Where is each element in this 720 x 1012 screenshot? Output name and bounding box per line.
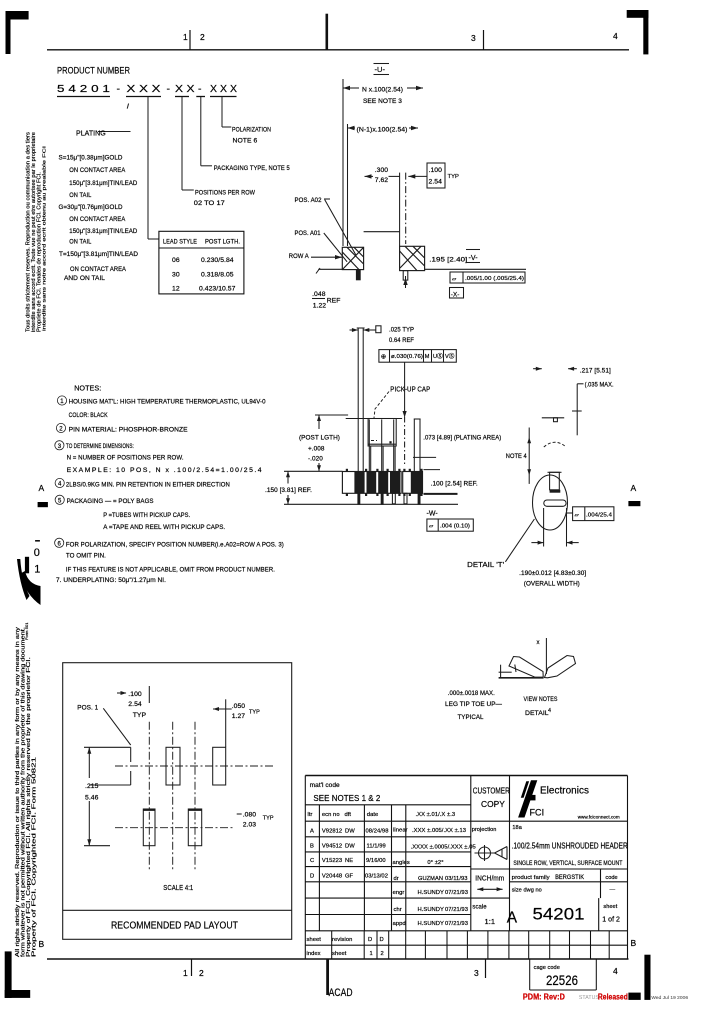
svg-text:scale: scale (472, 905, 487, 911)
svg-text:POLARIZATION: POLARIZATION (232, 127, 271, 134)
svg-text:SEE NOTE 3: SEE NOTE 3 (363, 98, 402, 105)
svg-text:G=30μ"[0.76μm]GOLD: G=30μ"[0.76μm]GOLD (59, 204, 123, 211)
svg-text:Wed Jul 19 2006: Wed Jul 19 2006 (651, 995, 688, 1001)
svg-text:150μ"[3.81μm]TIN/LEAD: 150μ"[3.81μm]TIN/LEAD (69, 228, 137, 235)
svg-text:mat'l code: mat'l code (310, 782, 340, 789)
svg-text:.025 TYP: .025 TYP (389, 327, 414, 334)
svg-text:N x.100(2.54): N x.100(2.54) (362, 87, 403, 94)
svg-text:POS. A02: POS. A02 (295, 197, 322, 204)
svg-text:x: x (537, 640, 540, 646)
svg-text:ON TAIL: ON TAIL (69, 239, 91, 246)
svg-text:⊕: ⊕ (381, 354, 387, 361)
svg-text:SINGLE ROW, VERTICAL, SURFACE: SINGLE ROW, VERTICAL, SURFACE MOUNT (513, 860, 622, 867)
svg-text:12: 12 (172, 286, 180, 293)
svg-text:4: 4 (613, 966, 618, 976)
svg-text:.050: .050 (232, 703, 246, 710)
svg-text:P =TUBES WITH PICKUP CAPS.: P =TUBES WITH PICKUP CAPS. (103, 512, 190, 519)
svg-text:07/21/93: 07/21/93 (445, 921, 468, 927)
svg-text:0.423/10.57: 0.423/10.57 (199, 286, 236, 293)
svg-text:PDM: Rev:D: PDM: Rev:D (523, 993, 565, 1002)
svg-text:30: 30 (172, 272, 180, 279)
svg-text:A: A (310, 829, 314, 835)
svg-text:3: 3 (471, 33, 476, 43)
svg-text:PACKAGING TYPE, NOTE 5: PACKAGING TYPE, NOTE 5 (214, 165, 290, 172)
svg-text:REF: REF (327, 298, 341, 305)
svg-text:revision: revision (332, 937, 352, 943)
svg-text:NOTES:: NOTES: (74, 384, 101, 393)
svg-text:PRODUCT NUMBER: PRODUCT NUMBER (57, 66, 130, 77)
svg-text:EXAMPLE: 10 POS, N x .100/2.54: EXAMPLE: 10 POS, N x .100/2.54=1.00/25.4 (67, 467, 262, 474)
svg-text:POS. 1: POS. 1 (77, 705, 98, 712)
svg-text:-U-: -U- (375, 65, 386, 74)
svg-text:2: 2 (59, 427, 63, 433)
svg-text:sheet: sheet (332, 951, 347, 957)
svg-text:(.035 MAX.: (.035 MAX. (585, 383, 614, 389)
svg-text:www.fciconnect.com: www.fciconnect.com (578, 815, 620, 820)
svg-text:-X-: -X- (451, 292, 460, 299)
svg-text:COLOR: BLACK: COLOR: BLACK (69, 412, 108, 419)
svg-text:A: A (39, 483, 45, 493)
svg-text:.217 [5.51]: .217 [5.51] (580, 368, 611, 375)
svg-text:▱: ▱ (429, 524, 434, 530)
svg-text:B: B (310, 844, 314, 850)
svg-text:0.64 REF: 0.64 REF (389, 337, 414, 344)
svg-text:.004/25.4: .004/25.4 (586, 513, 612, 519)
svg-text:M: M (425, 354, 430, 360)
svg-text:A: A (631, 483, 637, 493)
svg-text:.000±.0018 MAX.: .000±.0018 MAX. (448, 690, 495, 697)
svg-text:.100: .100 (128, 691, 142, 698)
svg-text:C: C (310, 858, 314, 864)
svg-text:.100 [2.54] REF.: .100 [2.54] REF. (431, 480, 478, 487)
svg-text:.XX ±.01/.X ±.3: .XX ±.01/.X ±.3 (416, 812, 456, 818)
svg-text:22526: 22526 (546, 973, 578, 988)
svg-text:1 of 2: 1 of 2 (602, 916, 620, 923)
svg-text:.100: .100 (429, 167, 443, 174)
svg-text:-: - (198, 83, 202, 95)
svg-text:DW: DW (345, 829, 355, 835)
svg-text:Released: Released (598, 993, 628, 1002)
svg-text:02 TO 17: 02 TO 17 (194, 200, 225, 207)
svg-text:FCI: FCI (530, 808, 545, 818)
svg-text:POS. A01: POS. A01 (295, 230, 321, 237)
svg-text:-: - (117, 83, 121, 95)
svg-text:NOTE 4: NOTE 4 (506, 453, 527, 460)
svg-text:2: 2 (200, 32, 205, 42)
svg-text:B: B (631, 938, 637, 948)
svg-text:.300: .300 (375, 167, 389, 174)
svg-text:LEG TIP TOE UP—: LEG TIP TOE UP— (445, 701, 503, 708)
svg-text:▱: ▱ (575, 513, 580, 519)
svg-text:HOUSING MAT'L: HIGH TEMPERATUR: HOUSING MAT'L: HIGH TEMPERATURE THERMOPL… (69, 399, 266, 406)
svg-text:D: D (368, 937, 372, 943)
svg-text:7.62: 7.62 (375, 177, 389, 184)
svg-text:PICK-UP CAP: PICK-UP CAP (390, 386, 430, 393)
svg-text:5 4 2 0 1: 5 4 2 0 1 (57, 83, 110, 95)
svg-text:BERGSTIK: BERGSTIK (555, 874, 585, 881)
svg-text:ON CONTACT AREA: ON CONTACT AREA (69, 167, 125, 174)
svg-text:engr: engr (393, 890, 405, 896)
svg-text:06: 06 (172, 257, 180, 264)
svg-text:DW: DW (345, 844, 355, 850)
svg-text:-: - (167, 83, 171, 95)
svg-text:2.54: 2.54 (429, 179, 443, 186)
svg-text:TYPICAL: TYPICAL (458, 714, 484, 721)
svg-text:POST LGTH.: POST LGTH. (205, 239, 240, 246)
svg-text:3: 3 (58, 444, 62, 450)
svg-text:ACAD: ACAD (329, 987, 353, 999)
svg-text:LEAD STYLE: LEAD STYLE (163, 239, 197, 246)
svg-text:ø.030(0.76): ø.030(0.76) (391, 354, 423, 360)
svg-text:TO OMIT PIN.: TO OMIT PIN. (66, 553, 106, 560)
svg-text:V20448: V20448 (322, 874, 342, 880)
svg-text:ecn no: ecn no (322, 812, 340, 818)
svg-text:GF: GF (345, 874, 354, 880)
svg-text:0° ±2°: 0° ±2° (427, 860, 443, 866)
svg-text:T=150μ"[3.81μm]TIN/LEAD: T=150μ"[3.81μm]TIN/LEAD (59, 251, 138, 258)
svg-text:linear: linear (393, 828, 407, 834)
svg-text:5: 5 (58, 498, 62, 504)
svg-text:Property of FCI. Copyrighted: Property of FCI. Copyrighted FCI. Form 5… (32, 757, 38, 957)
svg-text:AND ON TAIL: AND ON TAIL (64, 275, 105, 282)
svg-text:1:1: 1:1 (485, 917, 496, 926)
svg-text:(POST LGTH): (POST LGTH) (299, 435, 340, 442)
svg-text:COPY: COPY (481, 799, 505, 809)
svg-text:03/11/93: 03/11/93 (445, 876, 468, 882)
svg-text:H.SUNDY: H.SUNDY (418, 921, 445, 927)
svg-text:H.SUNDY: H.SUNDY (418, 890, 445, 896)
svg-text:.XXX ±.005/.XX ±.13: .XXX ±.005/.XX ±.13 (412, 828, 466, 834)
svg-text:07/21/93: 07/21/93 (445, 890, 468, 896)
svg-text:.080: .080 (243, 812, 257, 819)
svg-text:.XXXX ±.0005/.XXX ±.05: .XXXX ±.0005/.XXX ±.05 (411, 845, 476, 851)
svg-text:INCH/mm: INCH/mm (475, 876, 504, 883)
svg-text:TYP: TYP (448, 174, 460, 180)
svg-text:—: — (610, 887, 616, 893)
svg-text:ltr: ltr (308, 812, 313, 818)
svg-text:(N-1)x.100(2.54): (N-1)x.100(2.54) (357, 127, 408, 134)
svg-text:(OVERALL WIDTH): (OVERALL WIDTH) (524, 581, 580, 588)
svg-text:7. UNDERPLATING: 50μ"/1.27μm N: 7. UNDERPLATING: 50μ"/1.27μm NI. (56, 577, 166, 584)
svg-text:NE: NE (345, 858, 353, 864)
svg-text:sheet: sheet (307, 937, 322, 943)
svg-text:2LBS/0.9KG MIN. PIN RETENTION: 2LBS/0.9KG MIN. PIN RETENTION IN EITHER … (66, 482, 230, 489)
svg-text:V94512: V94512 (322, 844, 342, 850)
svg-text:B: B (39, 939, 45, 949)
svg-text:GUZMAN: GUZMAN (418, 876, 443, 882)
svg-text:RECOMMENDED PAD LAYOUT: RECOMMENDED PAD LAYOUT (111, 920, 238, 932)
svg-text:dr: dr (394, 876, 399, 882)
svg-text:projection: projection (472, 827, 497, 833)
svg-text:PLATING: PLATING (76, 131, 106, 138)
svg-text:-.020: -.020 (308, 456, 323, 463)
svg-text:Form 501: Form 501 (24, 622, 29, 640)
svg-text:Electronics: Electronics (540, 785, 589, 796)
svg-text:08/24/98: 08/24/98 (366, 829, 389, 835)
svg-text:0.230/5.84: 0.230/5.84 (201, 257, 234, 264)
svg-text:1: 1 (183, 968, 188, 978)
svg-text:product family: product family (512, 875, 550, 881)
svg-text:ON CONTACT AREA: ON CONTACT AREA (69, 216, 125, 223)
svg-text:07/21/93: 07/21/93 (445, 907, 468, 913)
svg-text:N = NUMBER OF POSITIONS PER RO: N = NUMBER OF POSITIONS PER ROW. (67, 455, 184, 462)
svg-text:TO DETERMINE DIMENSIONS:: TO DETERMINE DIMENSIONS: (66, 443, 134, 450)
svg-text:chr: chr (394, 907, 402, 913)
svg-text:0: 0 (34, 547, 40, 559)
svg-text:6: 6 (58, 541, 62, 547)
svg-text:X X X: X X X (127, 83, 161, 95)
svg-text:ON CONTACT AREA: ON CONTACT AREA (70, 266, 126, 273)
svg-text:-V-: -V- (469, 255, 479, 262)
svg-text:5.46: 5.46 (85, 795, 99, 802)
svg-text:TYP: TYP (263, 816, 274, 822)
svg-text:SCALE 4:1: SCALE 4:1 (163, 883, 193, 892)
svg-text:+.008: +.008 (308, 446, 325, 453)
svg-text:0.318/8.05: 0.318/8.05 (201, 272, 234, 279)
svg-text:PACKAGING — = POLY BAGS: PACKAGING — = POLY BAGS (67, 498, 154, 505)
svg-text:D: D (310, 874, 314, 880)
svg-text:IF THIS FEATURE IS NOT APPLICA: IF THIS FEATURE IS NOT APPLICABLE, OMIT … (66, 566, 275, 573)
svg-text:-W-: -W- (427, 510, 439, 517)
svg-text:1.22: 1.22 (313, 303, 327, 310)
svg-text:TYP: TYP (249, 709, 260, 715)
svg-text:.150 [3.81] REF.: .150 [3.81] REF. (265, 487, 312, 494)
svg-text:date: date (367, 812, 378, 818)
svg-text:index: index (307, 951, 321, 957)
svg-text:150μ"[3.81μm]TIN/LEAD: 150μ"[3.81μm]TIN/LEAD (69, 180, 137, 187)
svg-text:.190±0.012 [4.83±0.30]: .190±0.012 [4.83±0.30] (519, 570, 586, 577)
svg-text:3: 3 (474, 968, 479, 978)
svg-text:DETAIL: DETAIL (525, 710, 549, 717)
svg-text:X X X: X X X (210, 83, 237, 95)
svg-text:DETAIL 'T': DETAIL 'T' (467, 560, 505, 569)
svg-text:4: 4 (613, 31, 618, 41)
svg-text:4: 4 (548, 708, 551, 714)
svg-text:TYP: TYP (133, 712, 147, 719)
svg-text:1: 1 (34, 564, 40, 576)
svg-text:cage code: cage code (534, 965, 560, 971)
svg-text:.215: .215 (85, 783, 99, 790)
svg-text:2.03: 2.03 (243, 822, 257, 829)
svg-text:.195 [2.40]: .195 [2.40] (429, 257, 467, 264)
svg-text:ON TAIL: ON TAIL (69, 192, 91, 199)
svg-text:STATUS: STATUS (579, 995, 599, 1001)
svg-text:UⓈ: UⓈ (433, 352, 443, 360)
svg-text:size dwg no: size dwg no (512, 887, 542, 893)
svg-text:code: code (605, 875, 617, 881)
svg-text:▱: ▱ (452, 277, 457, 283)
svg-text:VⓈ: VⓈ (445, 352, 455, 360)
svg-text:1: 1 (60, 399, 64, 405)
svg-text:X X: X X (175, 83, 195, 95)
svg-text:H.SUNDY: H.SUNDY (418, 907, 445, 913)
svg-text:CUSTOMER: CUSTOMER (473, 786, 510, 796)
svg-text:PIN MATERIAL: PHOSPHOR-BRONZE: PIN MATERIAL: PHOSPHOR-BRONZE (69, 427, 188, 434)
svg-text:SEE NOTES 1 & 2: SEE NOTES 1 & 2 (313, 794, 380, 803)
svg-text:2.54: 2.54 (128, 701, 142, 708)
svg-text:.048: .048 (312, 291, 326, 298)
svg-text:V15223: V15223 (322, 858, 342, 864)
svg-text:ROW A: ROW A (289, 253, 309, 260)
svg-text:03/13/02: 03/13/02 (365, 874, 388, 880)
svg-text:appd: appd (393, 921, 406, 927)
svg-text:1.27: 1.27 (232, 713, 246, 720)
svg-text:sheet: sheet (603, 904, 617, 910)
svg-text:11/1/99: 11/1/99 (367, 844, 386, 850)
svg-text:4: 4 (58, 482, 62, 488)
svg-text:.005/1.00 (.005/25.4): .005/1.00 (.005/25.4) (465, 276, 524, 282)
svg-text:VIEW NOTES: VIEW NOTES (524, 696, 558, 703)
svg-text:.073 [4.89] (PLATING AREA): .073 [4.89] (PLATING AREA) (423, 435, 501, 442)
svg-text:angles: angles (393, 860, 410, 866)
svg-text:1: 1 (183, 32, 188, 42)
svg-text:2: 2 (381, 951, 384, 957)
svg-text:A: A (507, 910, 518, 927)
svg-text:1: 1 (370, 951, 373, 957)
svg-text:NOTE 6: NOTE 6 (233, 138, 258, 145)
svg-text:D: D (380, 937, 384, 943)
svg-text:FOR POLARIZATION, SPECIFY POSI: FOR POLARIZATION, SPECIFY POSITION NUMBE… (66, 542, 284, 549)
svg-text:POSITIONS PER ROW: POSITIONS PER ROW (195, 190, 255, 197)
svg-text:A =TAPE AND REEL WITH PICKUP C: A =TAPE AND REEL WITH PICKUP CAPS. (103, 524, 225, 531)
svg-text:9/16/00: 9/16/00 (366, 858, 386, 864)
svg-text:dft: dft (345, 812, 352, 818)
svg-text:.100/2.54mm UNSHROUDED HEADER: .100/2.54mm UNSHROUDED HEADER (512, 842, 628, 851)
svg-text:18a: 18a (512, 825, 522, 831)
svg-text:.004 (0.10): .004 (0.10) (440, 524, 470, 530)
svg-text:V92812: V92812 (322, 829, 342, 835)
svg-text:54201: 54201 (533, 905, 585, 924)
svg-text:interdite sans notre accord ec: interdite sans notre accord ecrit obtenu… (42, 146, 47, 331)
svg-text:S=15μ"[0.38μm]GOLD: S=15μ"[0.38μm]GOLD (59, 155, 123, 162)
svg-text:2: 2 (199, 968, 204, 978)
